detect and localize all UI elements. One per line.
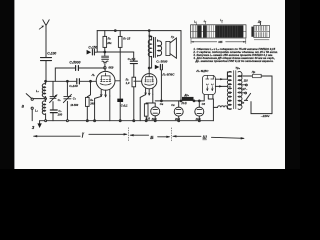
tube L2 6P6S (envelope)	[142, 74, 157, 89]
coil L2	[42, 100, 45, 121]
svg-text:6К9: 6К9	[108, 66, 113, 70]
left black bar	[0, 0, 14, 169]
wire corner down to C8	[133, 52, 135, 61]
heater wire with winding	[213, 106, 217, 108]
tube L2 plate riser to bus	[148, 31, 150, 74]
svg-text:L₄: L₄	[204, 20, 206, 23]
node below L1	[45, 98, 47, 100]
svg-text:R₈: R₈	[126, 78, 129, 82]
resistor R5 20k	[103, 31, 107, 52]
wire pin to bus via x=140	[140, 95, 145, 121]
tube L1 cathode/heater pins	[100, 90, 110, 97]
capacitor C3 200	[50, 110, 57, 121]
wire tube pin right to bus	[109, 96, 111, 121]
ground symbol and bottom bus	[37, 121, 41, 128]
svg-text:C₉0,1: C₉0,1	[121, 104, 128, 108]
wire lower horizontal bus y=81.3	[46, 80, 97, 82]
heater centre tap to bottom bus	[212, 99, 214, 121]
svg-text:C₅: C₅	[73, 97, 76, 101]
svg-text:Л₂ 6П6С: Л₂ 6П6С	[161, 72, 175, 76]
riser left end of top bus	[96, 31, 98, 52]
antenna	[39, 20, 49, 31]
rod dimension line	[191, 39, 246, 44]
svg-text:Др. намотан проводом ПЭЛ 0,12: Др. намотан проводом ПЭЛ 0,12 до заполне…	[194, 59, 273, 63]
svg-text:Л₁: Л₁	[91, 73, 95, 77]
wire cathode to R9 / C cap	[146, 94, 155, 103]
svg-text:127~: 127~	[241, 87, 247, 91]
resistor R6 240	[86, 81, 91, 120]
svg-text:C₆150: C₆150	[88, 46, 97, 50]
bus junction dots	[45, 120, 201, 122]
pickup jack / cap C9 5000	[155, 64, 163, 101]
svg-text:Пр: Пр	[252, 70, 256, 74]
tube L1 screen lead	[115, 80, 120, 82]
power transformer Tr2	[227, 71, 242, 110]
capacitor C9 0,1 (black)	[117, 99, 123, 102]
bottom bus wire	[40, 120, 214, 122]
svg-text:20к: 20к	[106, 41, 112, 45]
node under R5	[104, 51, 106, 53]
resistor R7 15	[118, 31, 122, 121]
resistor R8	[132, 77, 136, 121]
mains lead 220v	[251, 102, 272, 114]
svg-text:C₄5000: C₄5000	[69, 61, 80, 65]
rectifier heater pins	[208, 95, 213, 99]
svg-text:Св: Св	[160, 102, 164, 106]
section II arrow line	[130, 134, 148, 136]
svg-text:L₂: L₂	[220, 20, 222, 22]
svg-text:16-500: 16-500	[70, 104, 78, 107]
node rail/choke left	[180, 100, 182, 102]
svg-text:20,0: 20,0	[195, 118, 201, 121]
capacitor C8 0,1	[130, 61, 137, 77]
trimmer capacitor C5	[63, 81, 71, 120]
svg-text:1,0: 1,0	[126, 81, 130, 85]
svg-text:C₈ 0,1: C₈ 0,1	[128, 57, 136, 61]
loudspeaker Gr	[166, 38, 177, 58]
divider dotted	[170, 128, 172, 142]
B+ rail after rectifier	[155, 95, 204, 101]
svg-text:Тр₁: Тр₁	[148, 34, 152, 38]
svg-text:C₃: C₃	[58, 109, 61, 113]
svg-text:Сн: Сн	[171, 103, 175, 107]
section III arrow line	[173, 135, 201, 137]
electrolytic cap 3	[195, 100, 204, 121]
node rail/choke right	[193, 100, 195, 102]
junction dot	[90, 80, 92, 82]
svg-text:~220v: ~220v	[261, 114, 270, 118]
svg-text:R₆: R₆	[90, 98, 93, 102]
wire antenna down	[45, 31, 47, 57]
rectifier tube L3 6Ts5S	[202, 75, 215, 94]
node on top bus	[114, 30, 116, 32]
section I arrow line	[34, 135, 81, 137]
node rail jack	[161, 100, 163, 102]
svg-text:345: 345	[218, 41, 223, 44]
svg-text:20,0: 20,0	[174, 118, 180, 121]
capacitor C4 5000	[76, 66, 79, 71]
bottom section dimension arrows	[33, 128, 245, 142]
ferrite rod coil drawing (top right)	[191, 21, 246, 38]
svg-text:(0,4): (0,4)	[182, 102, 187, 105]
svg-text:C₂: C₂	[58, 98, 61, 102]
electrolytic cap 2	[174, 101, 183, 121]
grid coil L5 with core	[102, 52, 109, 67]
svg-text:R₇ 15: R₇ 15	[123, 37, 130, 41]
capacitor C1 100	[41, 58, 52, 81]
svg-text:200: 200	[57, 112, 63, 116]
output transformer Tr1	[148, 36, 161, 68]
svg-text:L₁: L₁	[36, 89, 39, 93]
svg-text:30,0: 30,0	[152, 118, 157, 121]
right black bar	[285, 0, 300, 169]
svg-text:Дв: Дв	[257, 21, 262, 24]
wire riser to C4	[55, 68, 104, 81]
svg-text:Гр: Гр	[171, 35, 175, 39]
filter choke Dr1	[182, 97, 194, 101]
tube L1 6K9 (envelope)	[96, 69, 115, 90]
capacitor C2 100	[77, 79, 80, 84]
small bobbin drawing Dv	[251, 23, 269, 40]
wire y=52	[97, 51, 134, 53]
svg-text:3: 3	[32, 125, 35, 130]
tube L2 grid lead	[134, 80, 142, 82]
tube L1 top cap node	[104, 67, 106, 69]
wire to band switch	[33, 98, 45, 100]
node on plate riser	[148, 67, 150, 69]
switch B	[26, 94, 33, 121]
divider dotted	[127, 128, 129, 142]
svg-text:Тр₂: Тр₂	[235, 66, 241, 70]
wire tube pin to cathode column	[95, 96, 102, 120]
svg-text:L₁: L₁	[194, 21, 196, 23]
footnote text block	[192, 47, 278, 63]
junction dot	[67, 80, 69, 82]
rectifier anode leads to Tr2	[215, 79, 227, 86]
svg-text:240: 240	[89, 102, 95, 106]
electrolytic cap 1	[151, 103, 160, 121]
resistor R9 110	[144, 103, 148, 121]
node on top bus	[148, 30, 150, 32]
svg-text:Др₁: Др₁	[183, 93, 189, 97]
top bus wire y=30.6	[97, 30, 181, 32]
fuse Pr	[253, 74, 272, 113]
svg-text:110: 110	[146, 118, 151, 121]
detector cap C6 150	[87, 49, 98, 55]
svg-text:Сд: Сд	[202, 102, 206, 106]
variable capacitor C2 (tuning, left section)	[50, 81, 57, 109]
svg-text:C₁100: C₁100	[47, 51, 56, 55]
svg-text:C₂100: C₂100	[69, 84, 78, 88]
svg-text:Л₃ 6Ц5С: Л₃ 6Ц5С	[195, 69, 209, 73]
coil L1	[42, 81, 45, 98]
svg-text:110: 110	[244, 78, 249, 82]
svg-text:C₉ 5000: C₉ 5000	[156, 60, 167, 64]
node A (antenna/coil junction)	[45, 80, 47, 82]
primary taps and selector	[242, 76, 252, 100]
tube L2 pins	[145, 88, 153, 95]
B+ riser from top bus down to rail	[180, 31, 182, 101]
